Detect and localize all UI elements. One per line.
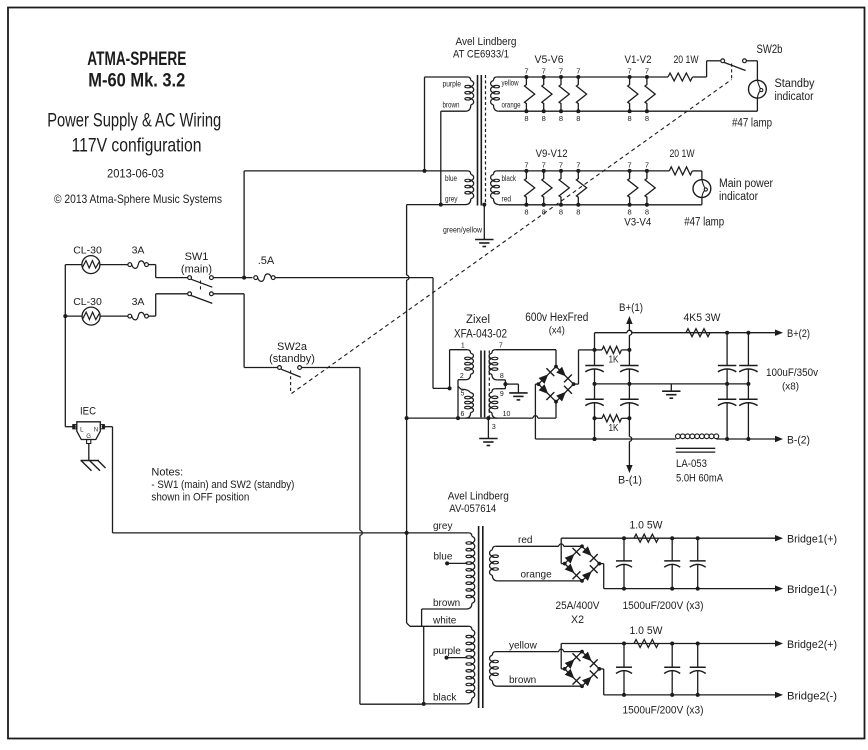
- svg-text:20 1W: 20 1W: [674, 54, 699, 66]
- capacitor 100uF A2: [594, 384, 596, 399]
- winding T2 primary 1-2: [467, 350, 470, 354]
- svg-text:8: 8: [500, 373, 504, 380]
- svg-text:B+(2): B+(2): [787, 328, 810, 340]
- wire Bridge1+ rail: [561, 537, 775, 539]
- svg-text:CL-30: CL-30: [73, 245, 102, 257]
- svg-text:25A/400V: 25A/400V: [556, 600, 601, 612]
- tube heater V9-V12 #3: [559, 171, 569, 205]
- svg-text:LA-053: LA-053: [676, 458, 707, 470]
- svg-text:indicator: indicator: [719, 191, 758, 203]
- resistor 1K upper: [595, 349, 603, 351]
- svg-text:Main power: Main power: [719, 178, 773, 190]
- wire filter column A top: [594, 333, 596, 366]
- svg-text:7: 7: [542, 160, 546, 169]
- svg-text:V5-V6: V5-V6: [535, 54, 564, 66]
- resistor 4K5 3W: [686, 329, 710, 337]
- wire heater bus row1 bottom: [499, 110, 758, 112]
- wire SW2a out vertical: [359, 368, 361, 531]
- wire Bridge2- rail: [604, 694, 776, 696]
- junction dot shield-ground: [486, 416, 490, 420]
- junction dot mid R1: [725, 382, 729, 386]
- svg-text:.5A: .5A: [258, 255, 275, 267]
- wire lamp2 to bus row2 bottom: [701, 198, 703, 205]
- svg-text:1K: 1K: [609, 354, 619, 366]
- junction dot black: [422, 702, 426, 706]
- earth ground (Zixel secondary CT): [509, 392, 527, 394]
- transformer T2 shield dashed: [488, 351, 490, 417]
- arrow Bridge2(-): [775, 692, 783, 698]
- earth ground (green/yellow): [475, 239, 493, 241]
- lamp standby indicator #47: [749, 80, 767, 98]
- wire purple lead: [425, 76, 468, 78]
- svg-text:V3-V4: V3-V4: [624, 217, 651, 229]
- svg-text:8: 8: [645, 114, 649, 123]
- wire fuse to SW1 pole1: [148, 264, 155, 266]
- fuse 3A (top): [128, 263, 132, 267]
- svg-text:N: N: [94, 428, 98, 434]
- svg-text:brown: brown: [509, 675, 536, 686]
- junction dot colD bottom: [746, 437, 750, 441]
- svg-text:8: 8: [628, 208, 632, 217]
- wire filter column C top: [726, 333, 728, 366]
- svg-text:B+(1): B+(1): [619, 302, 643, 314]
- wire B column vertical: [628, 323, 630, 331]
- svg-text:7: 7: [559, 67, 563, 76]
- wire purple vertical: [424, 77, 426, 171]
- svg-text:7: 7: [559, 160, 563, 169]
- capacitor 1500uF #2-1: [623, 644, 625, 668]
- arrow Bridge1(-): [775, 585, 783, 591]
- svg-text:- SW1 (main) and SW2 (standby): - SW1 (main) and SW2 (standby): [151, 479, 294, 491]
- wire SW2b out: [746, 60, 757, 62]
- junction dot SW1 out: [242, 276, 246, 280]
- IEC inlet body: [77, 422, 101, 440]
- wire heater bus row1 top right: [693, 76, 707, 78]
- wire bridge minus jog: [535, 383, 538, 385]
- svg-text:SW1: SW1: [185, 251, 209, 263]
- capacitor 100uF C1: [726, 365, 728, 367]
- wire bridge plus jog: [574, 383, 579, 385]
- winding T1 purple-brown: [468, 77, 471, 81]
- SW1 gang dashed link: [200, 281, 202, 292]
- wire IEC N: [102, 425, 106, 429]
- svg-text:blue: blue: [445, 174, 457, 183]
- svg-text:red: red: [502, 195, 512, 204]
- wire grey row: [113, 532, 469, 534]
- svg-text:5.0H 60mA: 5.0H 60mA: [676, 473, 724, 485]
- svg-text:XFA-043-02: XFA-043-02: [454, 329, 507, 341]
- wire Bridge2+ rail: [561, 643, 775, 645]
- svg-text:7: 7: [645, 160, 649, 169]
- svg-text:ATMA-SPHERE: ATMA-SPHERE: [87, 49, 186, 70]
- wire mid rail ground stem: [670, 384, 672, 391]
- arrow Bridge1(+): [775, 535, 783, 541]
- wire heater bus row2 bottom: [499, 204, 702, 206]
- svg-text:X2: X2: [571, 614, 584, 626]
- resistor 1.0 5W #2: [634, 640, 658, 648]
- wire Zixel pin1 lead: [450, 349, 468, 351]
- tube heater V3-V4 #1: [628, 171, 638, 205]
- svg-text:6: 6: [461, 411, 465, 418]
- svg-text:8: 8: [542, 208, 546, 217]
- tube heater V3-V4 #2: [645, 171, 655, 205]
- svg-text:20 1W: 20 1W: [670, 148, 695, 160]
- svg-text:7: 7: [645, 67, 649, 76]
- wire IEC L: [65, 426, 73, 428]
- svg-text:Notes:: Notes:: [151, 467, 183, 479]
- wire heater bus row1 top: [497, 76, 668, 78]
- svg-text:7: 7: [628, 160, 632, 169]
- wire B+ top rail: [595, 332, 628, 334]
- thermistor CL-30 (bottom): [82, 307, 100, 325]
- svg-text:grey: grey: [433, 521, 452, 532]
- bridge rectifier 25A/400V #1: [565, 546, 600, 581]
- wire blue lead: [441, 170, 468, 172]
- choke LA-053: [676, 434, 681, 439]
- svg-text:Bridge2(-): Bridge2(-): [787, 690, 837, 702]
- junction dot Zixel pin1/5: [448, 386, 452, 390]
- junction dot colA mid: [593, 382, 597, 386]
- wire hot into Zixel junction: [433, 387, 450, 389]
- fuse .5A: [254, 276, 258, 280]
- thermistor CL-30 (top): [82, 256, 100, 274]
- svg-text:Bridge2(+): Bridge2(+): [787, 639, 837, 651]
- earth ground (cap bank mid): [662, 390, 680, 392]
- svg-text:3A: 3A: [132, 245, 145, 257]
- winding T1 black-red: [494, 171, 497, 175]
- tube heater V9-V12 #2: [542, 171, 552, 205]
- capacitor 100uF C2: [726, 384, 728, 399]
- arrow B-(2): [775, 436, 783, 442]
- junction dot pin6: [456, 416, 460, 420]
- svg-text:8: 8: [576, 208, 580, 217]
- wire brown lead (T3): [422, 608, 467, 610]
- svg-text:AT CE6933/1: AT CE6933/1: [453, 49, 509, 61]
- capacitor 1500uF #1-2: [671, 538, 673, 561]
- svg-text:V9-V12: V9-V12: [536, 148, 568, 160]
- svg-text:1.0 5W: 1.0 5W: [630, 520, 664, 532]
- winding T3 secondary yellow-brown: [492, 652, 495, 656]
- junction dot neutral rail left: [405, 416, 409, 420]
- svg-text:7: 7: [499, 343, 503, 350]
- transformer T2 core: [480, 351, 482, 418]
- arrow Bridge2(+): [775, 640, 783, 646]
- wire CL-30 bottom to fuse: [100, 315, 128, 317]
- wire IEC G: [88, 444, 90, 461]
- resistor 1.0 5W #1: [634, 534, 658, 542]
- wire bridge2 plus riser: [561, 668, 565, 670]
- svg-text:117V configuration: 117V configuration: [72, 135, 202, 157]
- svg-text:3: 3: [492, 424, 496, 431]
- tube heater V5-V6 #2: [542, 77, 552, 111]
- svg-text:7: 7: [542, 67, 546, 76]
- wire pins8-9 to ground: [505, 383, 518, 385]
- svg-text:7: 7: [576, 160, 580, 169]
- wire AC line left vertical: [64, 265, 66, 427]
- wire .5A fuse to Zixel hot corner: [275, 277, 433, 279]
- svg-text:Avel Lindberg: Avel Lindberg: [456, 36, 517, 48]
- wire white row: [410, 625, 469, 627]
- junction dot colB 1K2: [627, 416, 631, 420]
- bridge rectifier 600v HexFred: [538, 367, 573, 402]
- junction dot colC bottom: [725, 437, 729, 441]
- fuse 3A (bottom): [128, 314, 132, 318]
- wire Zixel hot vertical: [432, 278, 434, 389]
- capacitor 100uF A1: [594, 365, 596, 367]
- arrow B-(1): [626, 465, 632, 473]
- svg-text:8: 8: [524, 208, 528, 217]
- svg-text:(standby): (standby): [269, 353, 315, 365]
- svg-text:B-(1): B-(1): [618, 475, 642, 487]
- wire rail up to bridge: [555, 401, 557, 418]
- wire bus to CL-30 top: [65, 264, 82, 266]
- tube heater V1-V2 #2: [645, 77, 655, 111]
- svg-text:Standby: Standby: [775, 78, 815, 90]
- arrow B+(1): [626, 316, 632, 324]
- winding T1 yellow-orange: [494, 77, 497, 81]
- svg-text:Zixel: Zixel: [466, 314, 490, 326]
- junction dot B- colA: [593, 437, 597, 441]
- wire down to SW2a: [243, 294, 245, 368]
- capacitor 100uF D1: [747, 365, 749, 367]
- resistor 20 1W (row2): [669, 167, 692, 175]
- svg-text:8: 8: [524, 114, 528, 123]
- wire orange lead: [498, 580, 582, 582]
- wire SW1 pole2 out: [213, 293, 244, 295]
- tube heater V5-V6 #3: [559, 77, 569, 111]
- wire B column lower: [628, 418, 630, 436]
- wire heater xfmr feed horizontal: [244, 170, 441, 172]
- lamp main power indicator #47: [693, 180, 711, 198]
- wire CL-30 top to fuse: [100, 264, 128, 266]
- junction dot colD top: [746, 331, 750, 335]
- svg-text:G: G: [86, 434, 91, 440]
- svg-text:Bridge1(+): Bridge1(+): [787, 534, 837, 546]
- svg-text:7: 7: [628, 67, 632, 76]
- bridge rectifier 25A/400V #2: [565, 652, 600, 687]
- tap blue: [445, 561, 449, 565]
- wire Zixel pin5 chamfer: [458, 386, 461, 389]
- svg-text:SW2b: SW2b: [757, 44, 783, 56]
- svg-text:1K: 1K: [609, 422, 619, 434]
- svg-text:brown: brown: [443, 101, 460, 110]
- svg-text:3A: 3A: [132, 296, 145, 308]
- transformer T3 core: [478, 526, 480, 708]
- svg-text:black: black: [433, 693, 457, 704]
- svg-text:9: 9: [500, 391, 504, 398]
- arrow B+(2): [775, 330, 783, 336]
- svg-text:AV-057614: AV-057614: [449, 503, 496, 515]
- svg-text:8: 8: [628, 114, 632, 123]
- svg-text:grey: grey: [445, 195, 458, 204]
- svg-text:black: black: [502, 174, 517, 183]
- transformer T1 core: [477, 75, 479, 206]
- wire bridge1 minus drop: [599, 563, 603, 565]
- svg-text:1500uF/200V (x3): 1500uF/200V (x3): [623, 600, 704, 612]
- wire SW2a out: [302, 367, 360, 369]
- svg-text:white: white: [432, 616, 457, 627]
- switch SW2a: [278, 366, 282, 370]
- SW2a dashed actuator: [290, 370, 292, 391]
- winding T1 blue-grey: [468, 171, 471, 175]
- wire green/yellow: [483, 205, 485, 240]
- wire brown lead: [441, 110, 466, 112]
- wire heater bus row2 top right: [692, 170, 702, 172]
- tube heater V5-V6 #4: [576, 77, 586, 111]
- svg-text:100uF/350v: 100uF/350v: [766, 367, 818, 379]
- wire filter column D top: [747, 333, 749, 366]
- wire Zixel neutral rail: [407, 417, 533, 419]
- svg-text:(main): (main): [181, 264, 212, 276]
- wire Zixel pin2 lead: [458, 379, 465, 381]
- svg-text:8: 8: [645, 208, 649, 217]
- capacitor 1500uF #2-3: [697, 644, 699, 668]
- svg-text:4K5 3W: 4K5 3W: [684, 312, 722, 324]
- junction dot shield: [482, 203, 486, 207]
- svg-text:V1-V2: V1-V2: [625, 54, 652, 66]
- junction dot colA bottom: [593, 437, 597, 441]
- junction dot colA 1K2: [593, 416, 597, 420]
- svg-text:B-(2): B-(2): [787, 435, 810, 447]
- svg-text:CL-30: CL-30: [73, 296, 102, 308]
- junction dot grey-neutral: [405, 531, 409, 535]
- svg-text:SW2a: SW2a: [277, 341, 308, 353]
- winding T2 primary 5-6: [461, 389, 471, 392]
- wire white-black link: [423, 626, 425, 704]
- svg-text:green/yellow: green/yellow: [443, 226, 482, 235]
- wire SW2a to black lead: [360, 703, 424, 705]
- svg-text:8: 8: [559, 208, 563, 217]
- svg-text:8: 8: [542, 114, 546, 123]
- svg-text:600v HexFred: 600v HexFred: [525, 312, 588, 324]
- winding T3 primary grey-brown: [469, 533, 472, 536]
- svg-text:purple: purple: [443, 80, 462, 89]
- svg-text:7: 7: [576, 67, 580, 76]
- switch SW1 pole2: [188, 292, 192, 296]
- svg-text:#47 lamp: #47 lamp: [684, 217, 724, 229]
- svg-text:2013-06-03: 2013-06-03: [107, 169, 164, 181]
- tube heater V5-V6 #1: [525, 77, 535, 111]
- svg-text:orange: orange: [521, 570, 553, 581]
- tap purple: [445, 656, 449, 660]
- capacitor 100uF D2: [747, 384, 749, 399]
- earth ground (Zixel shield): [479, 438, 497, 440]
- junction dot colA bridge feed: [593, 348, 597, 352]
- capacitor 100uF B2: [628, 384, 630, 399]
- winding T2 secondary 7-8: [492, 350, 495, 354]
- junction dot colC top: [725, 331, 729, 335]
- winding T3 primary white-black: [469, 626, 472, 629]
- wire red lead: [496, 545, 559, 547]
- wire bus to CL-30 bottom: [65, 315, 82, 317]
- winding T2 secondary 9-10: [492, 389, 495, 393]
- svg-text:7: 7: [524, 160, 528, 169]
- svg-text:brown: brown: [433, 598, 460, 609]
- svg-text:shown in OFF position: shown in OFF position: [151, 492, 249, 504]
- svg-text:red: red: [518, 535, 532, 546]
- svg-text:2: 2: [460, 373, 464, 380]
- wire neutral vertical: [406, 205, 408, 276]
- svg-text:(x4): (x4): [549, 325, 565, 337]
- SW2b dashed actuator: [731, 64, 733, 80]
- svg-text:1500uF/200V (x3): 1500uF/200V (x3): [623, 705, 704, 717]
- wire black row: [424, 703, 467, 705]
- capacitor 100uF B1: [628, 365, 630, 367]
- svg-text:indicator: indicator: [775, 91, 814, 103]
- capacitor 1500uF #1-1: [623, 538, 625, 561]
- dashed mechanical link SW2a-SW2b: [292, 80, 732, 394]
- wire bridge2 minus drop: [599, 668, 603, 670]
- svg-text:10: 10: [503, 411, 511, 418]
- tube heater V9-V12 #1: [525, 171, 535, 205]
- wire B- rail: [535, 438, 675, 440]
- wire grey lead: [407, 204, 466, 206]
- wire Zixel pin1 vertical: [449, 350, 451, 389]
- svg-text:blue: blue: [434, 552, 453, 563]
- tube heater V1-V2 #1: [628, 77, 638, 111]
- resistor 20 1W (row1): [668, 73, 692, 81]
- wire brown vertical: [440, 111, 442, 204]
- svg-text:yellow: yellow: [509, 641, 538, 652]
- junction dot purple-blue feed: [423, 169, 427, 173]
- junction dot line bus row2: [63, 314, 67, 318]
- svg-text:IEC: IEC: [80, 406, 96, 418]
- switch SW2b: [721, 59, 725, 63]
- svg-text:M-60 Mk. 3.2: M-60 Mk. 3.2: [88, 71, 185, 92]
- transformer T1 shield dashed: [485, 75, 487, 203]
- wire SW1 pole1 out: [213, 277, 252, 279]
- tube heater V9-V12 #4: [576, 171, 586, 205]
- svg-text:#47 lamp: #47 lamp: [732, 118, 772, 130]
- wire Zixel pin9 lead: [495, 388, 505, 390]
- svg-text:Power Supply & AC Wiring: Power Supply & AC Wiring: [47, 110, 221, 132]
- svg-text:Avel Lindberg: Avel Lindberg: [448, 491, 509, 503]
- svg-text:(x8): (x8): [782, 381, 799, 393]
- wire mid rail: [595, 383, 749, 385]
- capacitor 1500uF #1-3: [697, 538, 699, 561]
- wire lamp to bus row1 bottom: [756, 98, 758, 111]
- junction dot grey-brown: [439, 203, 443, 207]
- svg-text:Bridge1(-): Bridge1(-): [787, 584, 837, 596]
- wire bridge1 plus riser: [561, 563, 565, 565]
- svg-text:8: 8: [559, 114, 563, 123]
- chassis ground (IEC): [81, 460, 100, 462]
- wire riser to heater xfmr feed: [243, 171, 245, 278]
- wire shield to ground: [487, 418, 489, 438]
- svg-text:7: 7: [524, 67, 528, 76]
- junction dot colB mid: [627, 382, 631, 386]
- svg-text:yellow: yellow: [502, 79, 519, 88]
- wire Zixel pin7 lead: [495, 349, 556, 351]
- svg-text:1: 1: [461, 343, 465, 350]
- svg-text:1.0 5W: 1.0 5W: [630, 625, 664, 637]
- junction dot mid R2: [746, 382, 750, 386]
- wire yellow lead: [496, 651, 559, 653]
- wire heater bus row2 top: [497, 170, 670, 172]
- junction dot pins8-9: [503, 382, 507, 386]
- junction dot colB 1K1: [627, 348, 631, 352]
- wire fuse to SW1 pole2: [148, 315, 155, 317]
- wire Bridge1- rail: [604, 588, 776, 590]
- svg-text:5: 5: [460, 391, 464, 398]
- wire brown2 lead: [498, 685, 582, 687]
- svg-text:purple: purple: [433, 646, 461, 657]
- switch SW1 pole1: [188, 276, 192, 280]
- winding T3 secondary red-orange: [492, 546, 495, 550]
- resistor 1K lower: [595, 417, 603, 419]
- wire filter column A bottom: [594, 418, 596, 439]
- wire Zixel pin8 lead: [497, 379, 505, 381]
